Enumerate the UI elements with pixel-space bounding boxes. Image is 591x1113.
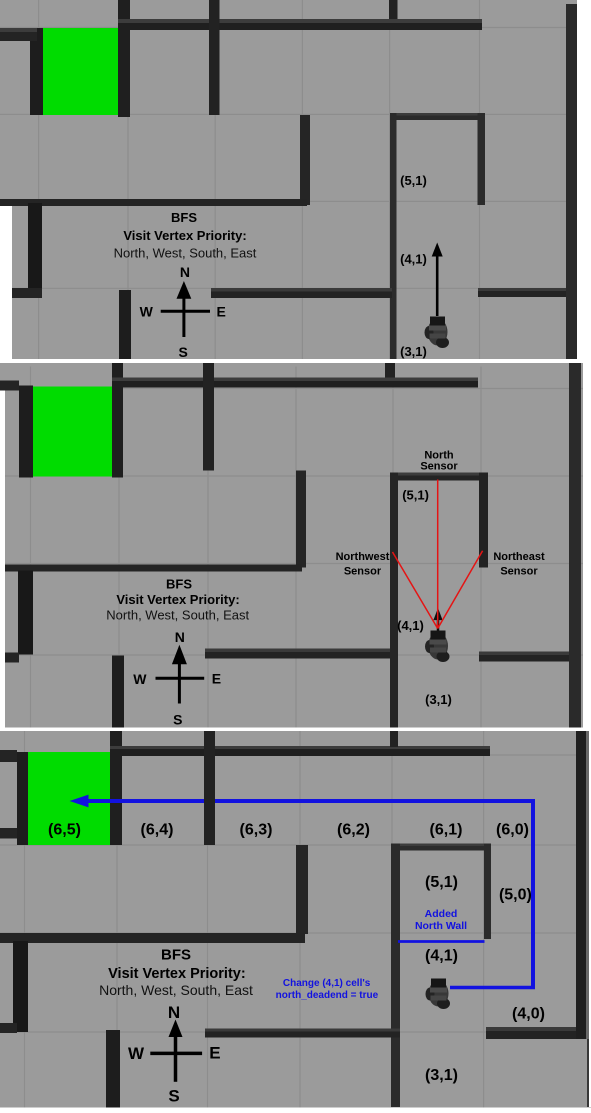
goal cell (green) [33,386,112,476]
svg-text:(5,1): (5,1) [400,173,427,188]
grid lines [0,366,591,727]
wall: vertical col2 top [204,731,215,845]
wall: vertical col2 top [209,0,220,115]
robot [426,979,451,1010]
wall: mid-left horizontal [0,933,305,943]
wall: green cell east vertical [112,363,123,478]
svg-text:(6,4): (6,4) [141,821,174,838]
wall: bottom-right horizontal [479,651,570,661]
maze floor [0,362,591,727]
sensor ray north [437,479,439,628]
blue path horizontal bottom [450,986,535,990]
wall: left bottom nub [12,288,42,298]
svg-text:(5,1): (5,1) [425,874,458,891]
wall: vertical col2 top (over blue path) [204,791,215,845]
wall: left vertical mid [18,570,33,654]
svg-text:S: S [168,1087,179,1106]
svg-text:(5,0): (5,0) [499,887,532,904]
svg-text:BFS: BFS [171,210,197,225]
white margin right [577,0,591,361]
svg-text:E: E [217,303,226,319]
svg-text:W: W [140,303,154,319]
svg-text:(4,1): (4,1) [397,618,424,633]
svg-text:Sensor: Sensor [420,460,458,472]
white margin left [0,206,12,361]
goal cell (green) [28,752,110,845]
wall: green cell west [19,385,33,477]
svg-text:Change (4,1) cell's: Change (4,1) cell's [283,978,371,989]
wall: vertical col3 mid [296,470,306,567]
svg-text:Northwest: Northwest [336,551,390,563]
svg-text:(6,5): (6,5) [48,821,81,838]
svg-text:(4,1): (4,1) [400,252,427,267]
wall: bottom-mid horizontal [205,648,390,658]
robot [425,630,450,662]
wall: vertical col4 top stub [385,363,395,378]
wall: long top horizontal [110,746,490,756]
svg-text:N: N [175,629,185,645]
goal cell (green) [43,28,119,115]
wall: col1 bottom vertical [112,655,124,727]
blue path horizontal top [86,799,535,803]
wall: vertical col4 top stub [389,0,398,19]
svg-text:(4,0): (4,0) [512,1006,545,1023]
wall: vertical col3 mid [296,845,308,934]
svg-text:(6,1): (6,1) [430,821,463,838]
wall: top-left nub [0,28,37,41]
svg-text:(5,1): (5,1) [402,487,429,502]
wall: corridor east vertical [478,113,486,205]
white strip bottom [0,1108,591,1113]
svg-text:BFS: BFS [161,946,191,963]
compass rose [161,294,210,337]
svg-text:Sensor: Sensor [500,565,538,577]
svg-text:E: E [209,1044,220,1063]
svg-text:(3,1): (3,1) [400,344,427,359]
wall: mid-left horizontal [0,199,307,206]
PANEL 2 [0,363,591,728]
wall: vertical col3 mid [300,115,310,205]
wall: col1 bottom vertical [119,290,131,361]
wall: green cell east vertical [110,731,122,845]
svg-text:(6,2): (6,2) [337,821,370,838]
wall: bottom-right horizontal [486,1027,580,1039]
svg-text:(3,1): (3,1) [425,1067,458,1084]
robot heading arrow [433,608,442,620]
wall: top-left nub [0,380,19,390]
heading arrow (north) [436,255,439,316]
wall: mid-left horizontal [5,564,302,571]
wall: vertical col4 top stub [390,731,398,747]
wall: corridor west vertical (long) [390,472,398,727]
wall: corridor top horizontal [391,113,485,120]
svg-text:Visit Vertex Priority:: Visit Vertex Priority: [116,592,239,607]
wall: corridor west vertical (long) [390,113,397,359]
svg-text:Northeast: Northeast [493,551,545,563]
wall: bottom-right horizontal [478,288,570,297]
wall: bottom-mid horizontal [205,1029,400,1038]
wall: left bottom nub [0,652,19,662]
wall: vertical col2 top [203,363,214,471]
wall: green cell west [17,752,28,845]
maze floor [0,731,591,1108]
svg-text:(6,3): (6,3) [240,821,273,838]
blue path vertical right [531,801,535,988]
compass rose [150,1033,202,1082]
svg-text:(3,1): (3,1) [425,692,452,707]
wall: green cell west [30,28,43,115]
svg-text:E: E [212,670,221,686]
svg-text:N: N [168,1003,180,1022]
svg-text:Visit Vertex Priority:: Visit Vertex Priority: [108,966,246,982]
svg-text:(6,0): (6,0) [496,821,529,838]
wall: corridor west vertical (long) [391,844,400,1108]
compass rose [156,661,205,704]
wall: left nub at green SW corner [0,828,17,839]
svg-text:North Wall: North Wall [415,920,467,932]
wall: left vertical mid [13,941,28,1032]
white margin right [589,731,591,1107]
svg-text:Visit Vertex Priority:: Visit Vertex Priority: [123,228,246,243]
wall: left top nub [0,750,17,762]
blue path arrowhead [70,795,89,808]
svg-text:North, West, South, East: North, West, South, East [106,607,249,622]
maze floor [0,0,591,361]
wall: long top horizontal [112,377,478,387]
grid lines [0,0,591,361]
svg-text:S: S [173,711,182,727]
wall: long top horizontal [118,19,482,30]
PANEL 3 [0,731,591,1113]
svg-text:north_deadend = true: north_deadend = true [276,990,379,1001]
robot [425,317,450,349]
svg-text:Added: Added [425,908,458,920]
wall: corridor top horizontal [392,844,491,851]
PANEL 1 [0,0,591,359]
wall: col1 bottom vertical [106,1030,120,1109]
svg-text:N: N [180,264,190,280]
svg-text:W: W [133,670,147,686]
svg-text:(4,1): (4,1) [425,948,458,965]
svg-text:Sensor: Sensor [344,565,382,577]
wall: east boundary [566,4,577,359]
wall: green cell east, column to top [118,0,130,117]
svg-text:North, West, South, East: North, West, South, East [114,245,257,260]
white margin right [583,362,591,727]
wall: corridor east vertical [484,844,491,940]
wall: left bottom nub [0,1023,17,1033]
svg-text:W: W [128,1044,145,1063]
svg-text:BFS: BFS [166,576,192,591]
wall: bottom-mid horizontal [211,288,392,298]
grid lines [0,731,591,1108]
wall: corridor top horizontal [390,472,486,480]
sensor ray northeast [438,550,483,628]
svg-text:North, West, South, East: North, West, South, East [99,982,253,998]
white margin left [0,390,5,727]
sensor ray northwest [393,552,438,629]
wall: corridor east vertical [479,472,488,567]
wall: east boundary [576,731,586,1039]
wall: left vertical mid [28,203,42,297]
wall: east boundary [569,363,581,728]
svg-text:S: S [179,344,188,359]
added wall blue line [398,940,485,943]
